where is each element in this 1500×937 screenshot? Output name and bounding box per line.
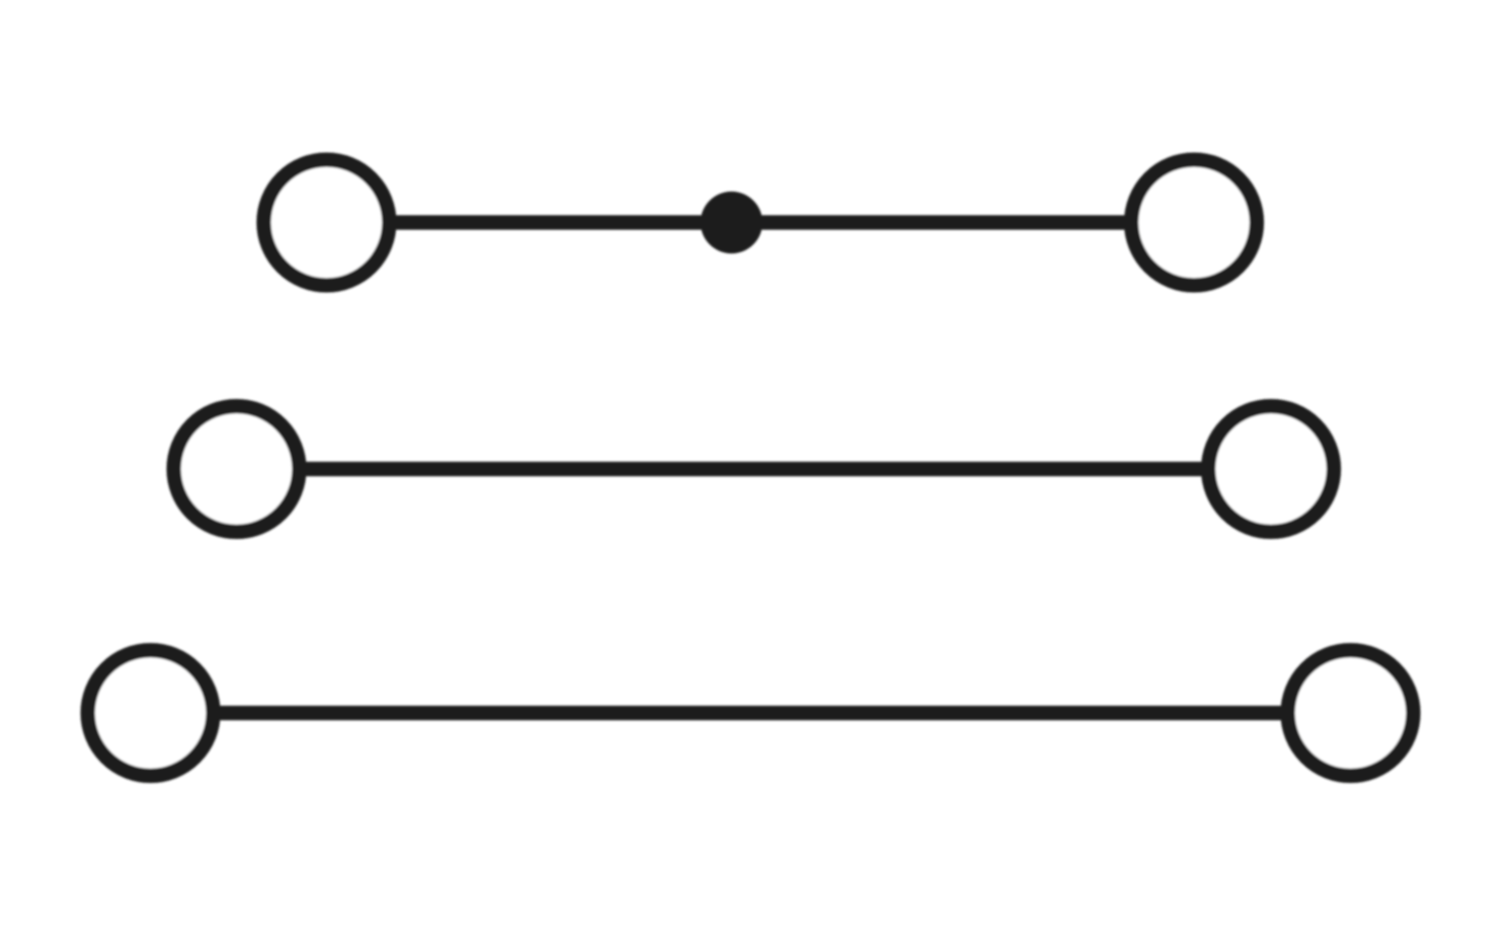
terminal point 1.2 (top row, right clamp) [1131, 160, 1257, 286]
terminal point 2.2 (middle row, right clamp) [1208, 406, 1334, 532]
junction dot on level 1 wire [701, 192, 763, 254]
terminal point 1.1 (top row, left clamp) [264, 160, 390, 286]
wire: level 1 conductor [327, 215, 1195, 230]
wire: level 3 conductor [151, 706, 1351, 721]
wire: level 2 conductor [237, 462, 1272, 477]
terminal point 2.1 (middle row, left clamp) [174, 406, 300, 532]
terminal point 3.2 (bottom row, right clamp) [1288, 650, 1414, 776]
terminal point 3.1 (bottom row, left clamp) [88, 650, 214, 776]
